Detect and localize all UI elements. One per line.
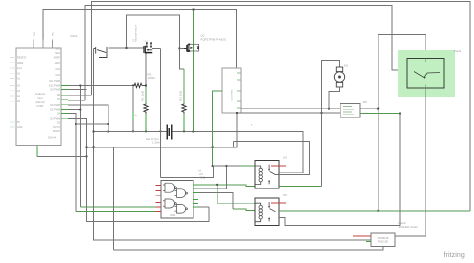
regulator U1 (222, 68, 241, 113)
node mesh row1 (216, 184, 218, 186)
node rail sw (159, 130, 161, 132)
node rail pmos (192, 130, 194, 132)
wire nmos right drop (160, 48, 162, 177)
U1 right pin ticks (237, 73, 241, 108)
node gate row (125, 47, 127, 49)
svg-text:D13: D13 (56, 68, 61, 71)
wire pin row2 (68, 89, 87, 91)
wire motor bottom (329, 87, 340, 109)
wire nmos right lead (152, 47, 160, 49)
wire clock bottom long (395, 88, 426, 236)
svg-text:R1 1kΩ: R1 1kΩ (141, 90, 145, 101)
wire pmos top drop (192, 10, 194, 54)
switch Part1 (94, 47, 107, 58)
node motor join (328, 108, 330, 110)
wire line B (237, 112, 340, 114)
nand left pins red (156, 185, 161, 211)
svg-text:VIN: VIN (52, 32, 54, 36)
svg-text:404LED Chain: 404LED Chain (399, 225, 419, 229)
mesh row1 branch (217, 185, 255, 203)
svg-text:U1 LM7805: U1 LM7805 (232, 89, 234, 101)
wire switch gate row (109, 47, 143, 49)
wire pin row3b (68, 99, 85, 101)
svg-text:D9 PWM: D9 PWM (50, 89, 60, 92)
gate 3 (163, 199, 176, 208)
svg-text:D0/RX: D0/RX (53, 130, 60, 133)
relay U4 red stub (271, 165, 286, 167)
wire pin row3 (68, 94, 92, 96)
svg-text:Q1: Q1 (133, 38, 135, 42)
nand right pins green (193, 185, 198, 207)
label arduino center (35, 92, 46, 108)
svg-text:AREF: AREF (17, 62, 24, 65)
wire pin row5 to nand (68, 109, 80, 111)
svg-text:R3 1kΩ: R3 1kΩ (179, 90, 183, 101)
led left pin wire end (366, 240, 371, 242)
relay U5 red stub (271, 202, 286, 204)
node line B left (236, 112, 238, 114)
svg-text:U5: U5 (283, 193, 287, 197)
arduino left pin stubs (10, 58, 16, 127)
svg-text:SCL: SCL (55, 48, 60, 51)
wire relay2 lower loop (279, 114, 400, 226)
resistor R3 (182, 104, 186, 114)
motor M1 (334, 67, 344, 87)
wire pin row4 (68, 105, 108, 132)
wire relay1 nc to motor (322, 61, 340, 187)
mesh row1 (198, 185, 255, 187)
svg-text:D6 PWM: D6 PWM (50, 104, 60, 107)
wire top rail 2 (85, 5, 407, 100)
resistor R1 (144, 104, 148, 114)
node line A right (377, 108, 379, 110)
svg-text:D D: D D (145, 41, 149, 43)
relay U4 (255, 161, 279, 189)
svg-text:SDA: SDA (55, 52, 60, 55)
arduino top pins (34, 40, 53, 49)
arduino right pin stubs (61, 85, 68, 118)
svg-text:ICSP: ICSP (36, 104, 43, 108)
wire gnd rail right (172, 131, 303, 172)
svg-text:s: s (251, 124, 253, 127)
gate 4 (175, 205, 188, 214)
wire pin row7 loop (68, 118, 209, 221)
svg-text:D12: D12 (56, 74, 61, 77)
svg-text:M1: M1 (344, 64, 348, 68)
clock top pin (425, 59, 427, 63)
wire pin row6 to nand (68, 114, 76, 212)
wire r3 bottom (183, 114, 185, 132)
svg-text:D5 PWM: D5 PWM (50, 109, 60, 112)
svg-text:fritzing: fritzing (444, 252, 465, 259)
svg-text:ioref: ioref (17, 67, 22, 70)
arduino right pin labels (54, 48, 61, 78)
driver module R5 (340, 104, 360, 118)
node nmos r2 (145, 84, 147, 86)
node box row2 (399, 112, 401, 114)
wire mid line (87, 113, 238, 147)
svg-text:D11 PWM: D11 PWM (49, 80, 60, 83)
battery BAT1 (167, 125, 172, 140)
wire r1 bottom (145, 114, 147, 132)
svg-text:D1/TX: D1/TX (53, 126, 60, 129)
svg-text:Part3: Part3 (454, 49, 462, 53)
node cross a (75, 123, 77, 125)
node r2 left (132, 84, 134, 86)
svg-text:5v: 5v (135, 115, 138, 117)
svg-text:SiR426DP N-MOS: SiR426DP N-MOS (136, 24, 138, 42)
transistor Q2 pmos (184, 44, 199, 53)
transistor Q1 nmos (143, 42, 152, 54)
wire pmos gate (179, 47, 187, 49)
wire line A (241, 108, 378, 110)
wire gnd rail (95, 130, 167, 132)
wire sda green (36, 143, 38, 157)
mesh row2 (161, 166, 241, 178)
mesh row3 (198, 193, 233, 209)
led box part2 (371, 233, 395, 247)
node rail r3 (183, 130, 185, 132)
svg-text:Part1: Part1 (71, 34, 79, 38)
svg-text:GND: GND (55, 62, 61, 65)
wire inner loop top (127, 15, 184, 69)
green highlight (398, 50, 455, 97)
led left red stub (353, 235, 371, 237)
svg-text:FQP27P06 P-MOS: FQP27P06 P-MOS (201, 38, 227, 42)
wire sda run (37, 155, 87, 157)
svg-text:D3 PWM: D3 PWM (50, 117, 60, 120)
wire nmos source drop (145, 54, 147, 85)
gate 2 (175, 189, 188, 198)
wire arduino pin D11 (68, 84, 133, 86)
mesh row6 (198, 206, 209, 208)
svg-text:GND: GND (17, 126, 23, 129)
svg-text:R5: R5 (363, 100, 367, 104)
wire relay1 green out (279, 186, 322, 188)
clock hands (414, 72, 440, 78)
svg-text:4011: 4011 (170, 213, 176, 217)
node relay1 b (320, 112, 322, 114)
gate 1 (163, 183, 176, 192)
svg-text:AREF: AREF (54, 57, 61, 60)
wire top rail 1 (92, 2, 470, 211)
clock part P3 (407, 59, 444, 89)
svg-text:3V3: 3V3 (34, 31, 36, 36)
svg-text:D10 PWM: D10 PWM (49, 84, 60, 87)
svg-text:5V: 5V (17, 121, 20, 124)
arduino left pin labels (17, 57, 27, 129)
node mid line left (85, 146, 87, 148)
node cross b (107, 123, 109, 125)
wire box right row2 (360, 113, 400, 115)
nand IC U2 (161, 180, 193, 218)
node pmos-top (192, 8, 194, 10)
node rail r1 (145, 130, 147, 132)
svg-text:100Ω: 100Ω (148, 76, 156, 80)
svg-text:RGB LED: RGB LED (378, 241, 389, 244)
wire cross link (76, 123, 108, 125)
svg-text:U4: U4 (283, 156, 287, 160)
node switch rail (92, 130, 94, 132)
svg-text:1.2Ah: 1.2Ah (152, 141, 160, 145)
resistor R2 (133, 83, 146, 87)
svg-text:RESET2: RESET2 (17, 57, 27, 60)
wire mid link M2 (234, 142, 310, 175)
wire led bottom gnd (114, 247, 384, 251)
wire relay2 green out (279, 210, 470, 212)
clock bottom pin (425, 85, 427, 89)
wire led drop (113, 147, 115, 250)
wire mid link M2 hook (233, 142, 235, 148)
node mid line u1 (211, 146, 213, 148)
node switch midline (92, 146, 94, 148)
node r2 rail (132, 130, 134, 132)
node row4 rail (107, 130, 109, 132)
wire pmos source drop (192, 54, 194, 132)
svg-text:SDA A4: SDA A4 (48, 137, 57, 140)
wire top rail 3 (43, 10, 236, 69)
wire switch drop long (94, 49, 374, 242)
arduino A1 body (16, 48, 61, 146)
relay U5 (255, 198, 279, 226)
wire r2 left drop (132, 85, 134, 112)
wire U1 left green (213, 91, 222, 166)
